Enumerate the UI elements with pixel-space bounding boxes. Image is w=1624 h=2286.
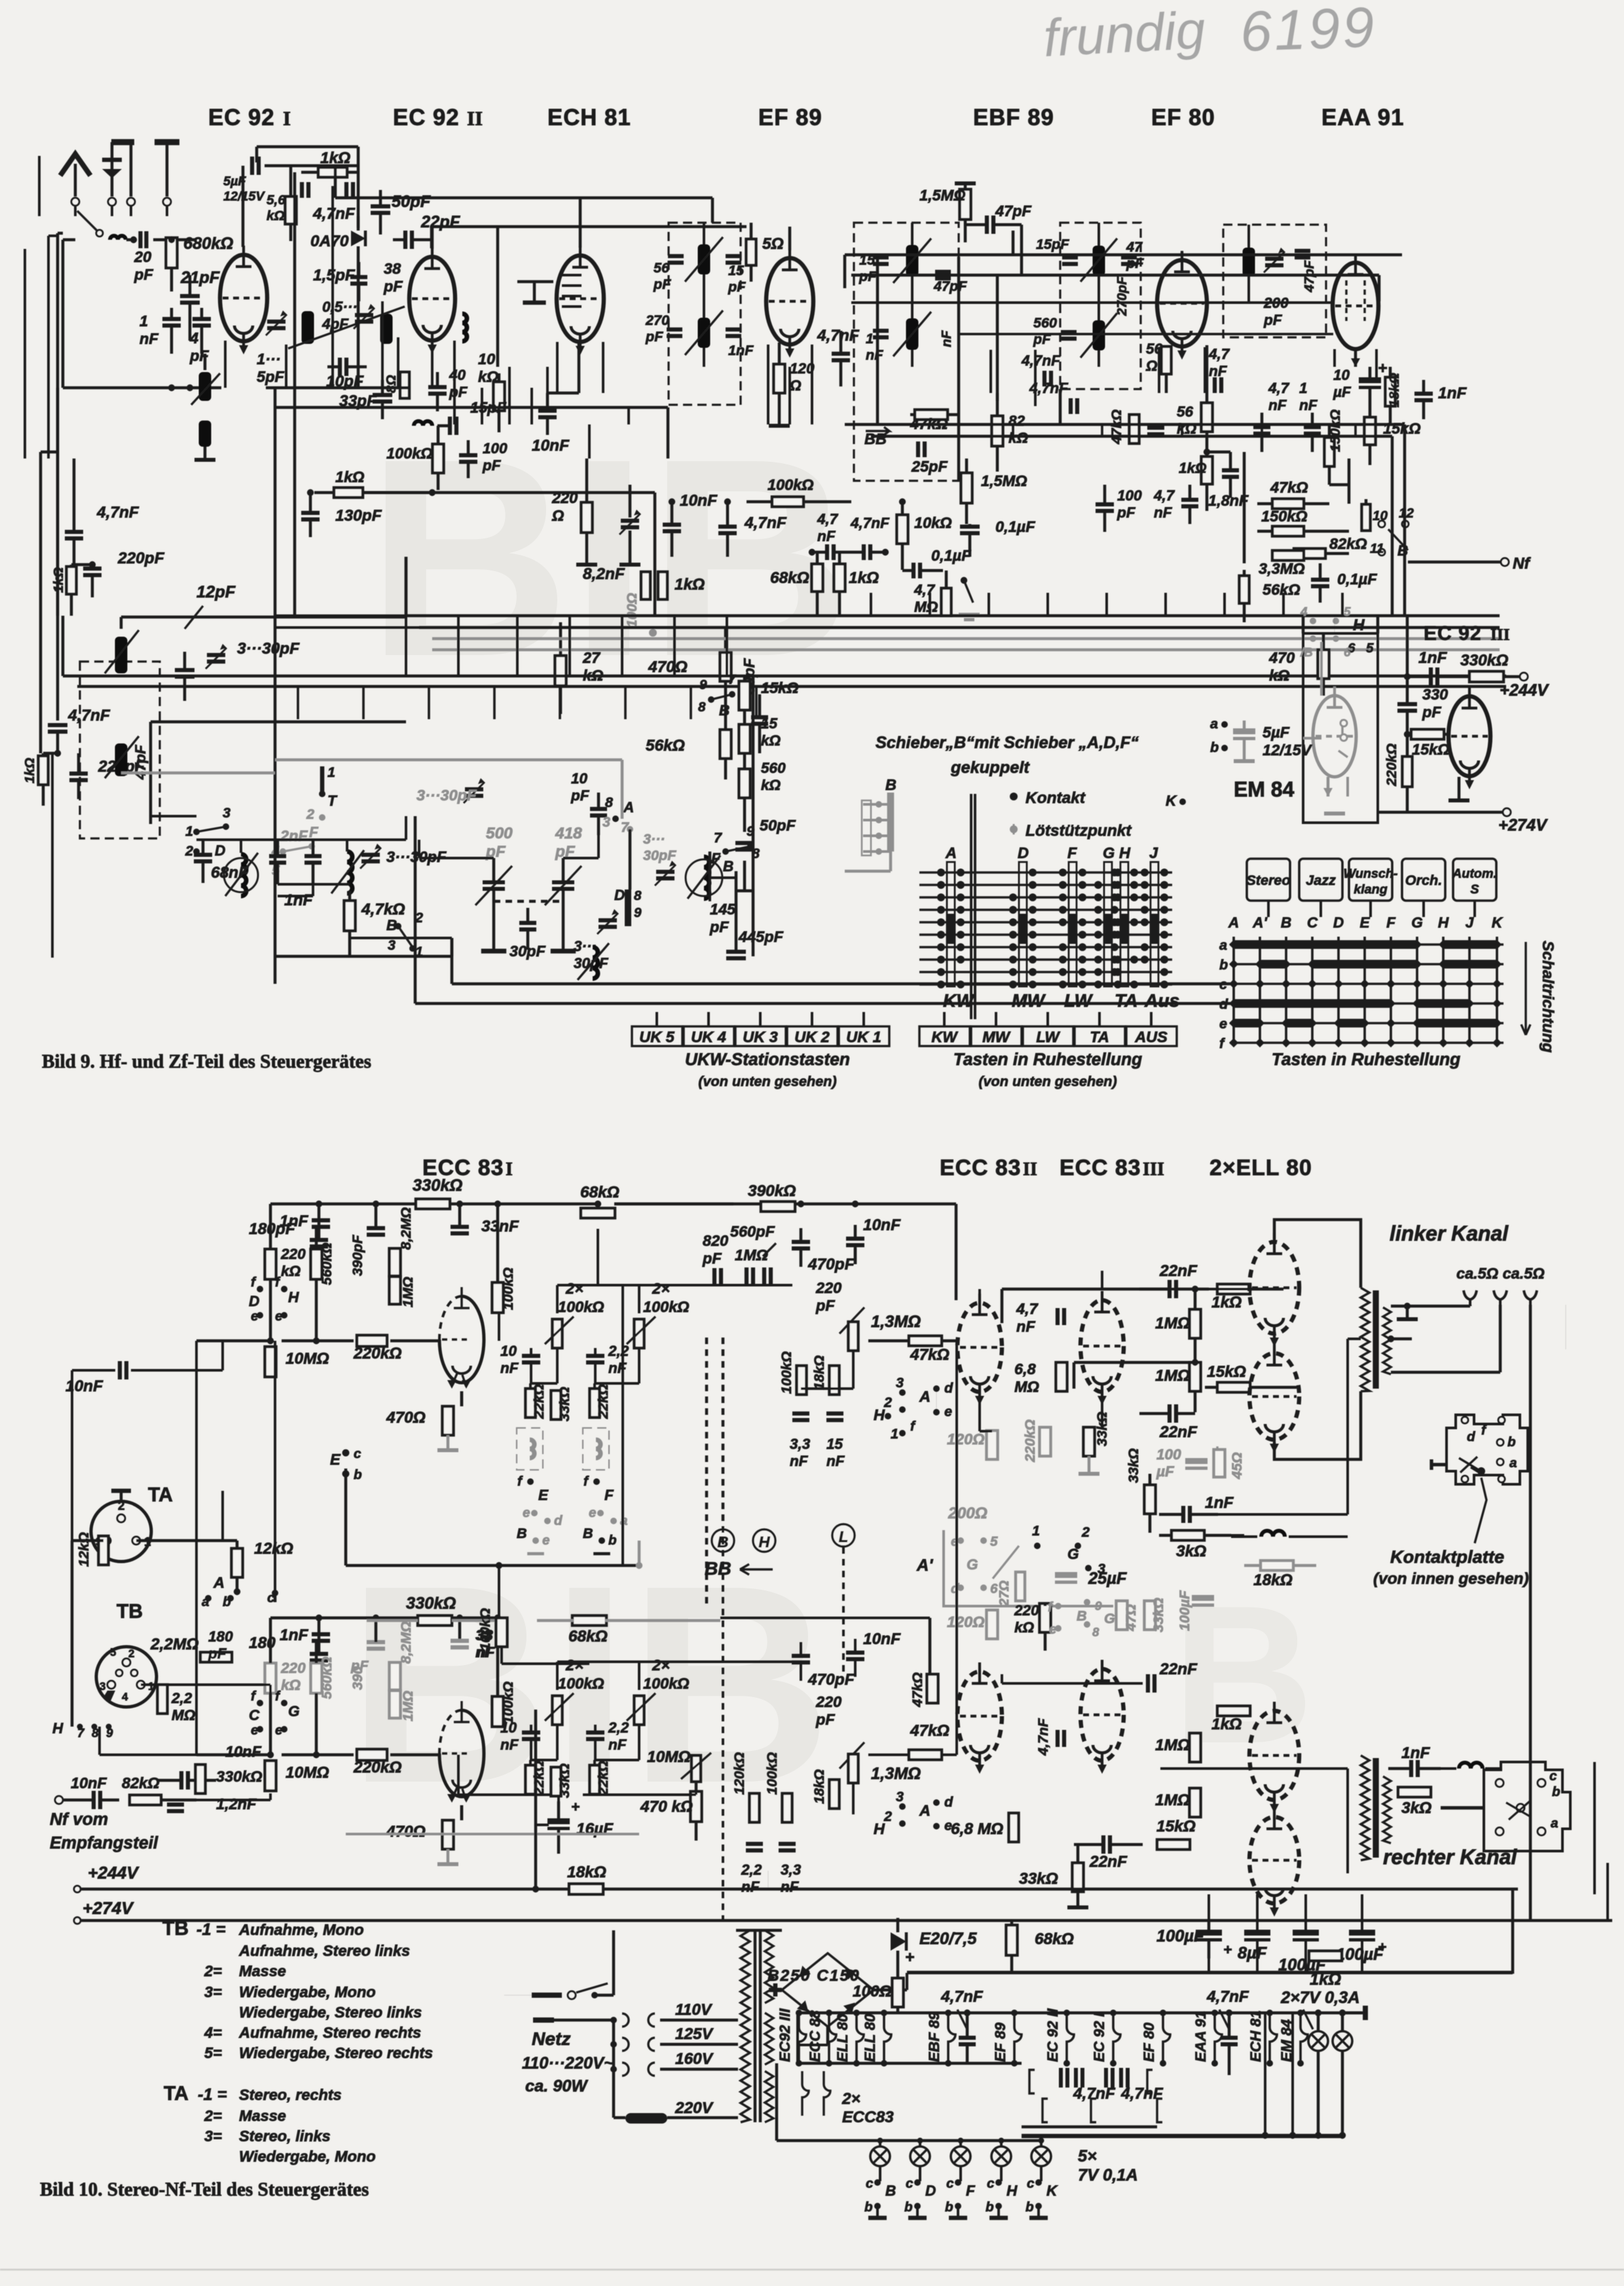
svg-text:nF: nF [939, 329, 954, 347]
switch contact [964, 580, 973, 603]
svg-text:e: e [1219, 1015, 1227, 1032]
capacitor [1170, 1404, 1176, 1423]
heater ELL 80 [884, 2013, 891, 2063]
wire [405, 616, 407, 676]
antenna plug 3 [127, 198, 135, 206]
circled L [832, 1524, 855, 1546]
svg-text:1,5MΩ: 1,5MΩ [981, 472, 1027, 489]
svg-text:3,3MΩ: 3,3MΩ [1259, 560, 1305, 577]
wire [557, 1795, 560, 1801]
svg-text:D: D [1333, 914, 1344, 931]
wire [170, 268, 173, 291]
svg-text:1,8nF: 1,8nF [1208, 492, 1249, 509]
electrolytic capacitor [547, 1818, 570, 1824]
wire [1230, 1002, 1504, 1004]
wire [1593, 1762, 1596, 1894]
wire [1022, 2134, 1344, 2137]
switch F cluster [280, 848, 286, 855]
svg-text:B250 C150: B250 C150 [767, 1967, 860, 1985]
svg-text:Kontakt: Kontakt [1025, 789, 1086, 807]
wire [91, 563, 94, 569]
wire [1499, 1305, 1502, 1372]
wire [996, 393, 999, 416]
wire [393, 238, 405, 241]
svg-text:2,2: 2,2 [608, 1343, 629, 1359]
svg-text:+274V: +274V [1498, 816, 1548, 834]
wire [868, 2216, 887, 2220]
svg-text:2: 2 [306, 806, 314, 822]
svg-text:47pF: 47pF [933, 278, 967, 294]
wire [826, 2027, 829, 2045]
wire [724, 629, 727, 652]
wire [1139, 1412, 1170, 1415]
svg-text:linker Kanal: linker Kanal [1390, 1222, 1509, 1245]
wire [907, 1889, 1513, 1972]
wire [405, 816, 407, 840]
svg-text:2×: 2× [841, 2090, 860, 2108]
wire [24, 249, 26, 459]
wire [1207, 451, 1230, 453]
svg-text:kΩ: kΩ [281, 1677, 301, 1693]
capacitor [1414, 394, 1433, 400]
svg-text:pF: pF [645, 328, 663, 345]
wire [508, 367, 511, 424]
resistor [720, 730, 731, 759]
wire [673, 616, 676, 676]
svg-text:100: 100 [483, 440, 507, 457]
svg-text:gekuppelt: gekuppelt [950, 759, 1030, 777]
capacitor [367, 1228, 385, 1235]
wire [597, 793, 600, 809]
wire [1231, 1535, 1257, 1538]
spule circle B [686, 859, 722, 896]
resistor [1130, 415, 1139, 443]
wire [74, 164, 77, 197]
svg-text:nF: nF [608, 1360, 627, 1376]
resistor [1365, 417, 1376, 445]
wire [546, 417, 549, 435]
wire [752, 675, 754, 956]
wire [1346, 1769, 1349, 1873]
svg-text:6,8: 6,8 [1014, 1360, 1037, 1377]
wire [1022, 2135, 1344, 2138]
wire [1365, 499, 1367, 536]
wire [755, 686, 758, 719]
wire [297, 686, 299, 719]
wire [1181, 424, 1183, 436]
svg-text:21pF: 21pF [180, 269, 221, 287]
wire [879, 2141, 881, 2146]
capacitor [181, 1771, 188, 1789]
wire [315, 1693, 318, 1755]
wire [1327, 777, 1329, 796]
svg-text:18kΩ: 18kΩ [1386, 373, 1402, 407]
svg-text:12pF: 12pF [196, 583, 236, 601]
svg-text:560pF: 560pF [730, 1223, 775, 1240]
wire [496, 1204, 499, 1283]
svg-text:nF: nF [817, 528, 836, 544]
wire [758, 724, 761, 753]
svg-text:2: 2 [128, 1647, 134, 1660]
wire [919, 958, 1172, 960]
wire [562, 890, 564, 917]
wire [987, 593, 990, 616]
diode E20 [891, 1932, 906, 1951]
wire [533, 2017, 554, 2023]
svg-text:8,2MΩ: 8,2MΩ [397, 1621, 414, 1664]
svg-text:390pF: 390pF [349, 1235, 365, 1276]
svg-text:10: 10 [500, 1343, 517, 1359]
wire [929, 593, 931, 616]
wire [1485, 1767, 1500, 1770]
resistor [443, 1406, 454, 1435]
wire [1341, 2052, 1344, 2135]
wire [381, 380, 384, 395]
wire [1319, 901, 1322, 917]
wire [726, 533, 729, 557]
resistor [232, 1548, 243, 1577]
wire [282, 1340, 354, 1342]
svg-text:d: d [944, 1379, 953, 1396]
wire [800, 1662, 802, 1681]
svg-text:1nF: 1nF [280, 1212, 309, 1230]
wire [536, 1824, 549, 1826]
tube [1157, 251, 1207, 360]
wire [1369, 406, 1371, 417]
capacitor [1221, 2038, 1238, 2044]
coil [380, 314, 393, 344]
svg-text:0,1µF: 0,1µF [1337, 571, 1377, 588]
svg-text:100kΩ: 100kΩ [500, 1681, 516, 1724]
capacitor [1170, 1280, 1176, 1298]
svg-text:7: 7 [728, 672, 737, 687]
svg-text:1: 1 [148, 1680, 154, 1693]
wire [707, 1012, 710, 1026]
wire [196, 1753, 270, 1756]
wire [614, 2116, 625, 2119]
wire [1204, 1534, 1244, 1537]
wire [941, 1340, 957, 1342]
wire [1443, 999, 1469, 1007]
wire [695, 1822, 697, 1841]
dashed box [854, 223, 959, 481]
ground [437, 1862, 458, 1866]
svg-text:MΩ: MΩ [1014, 1378, 1039, 1395]
resistor [641, 572, 650, 599]
svg-text:5µF: 5µF [223, 174, 246, 189]
antenna plug 2 [108, 198, 116, 206]
wire [1458, 777, 1460, 800]
wire [588, 424, 591, 459]
wire [529, 1760, 532, 1765]
ground [481, 948, 506, 953]
svg-text:EF 80: EF 80 [1141, 2022, 1157, 2062]
wire [919, 2167, 921, 2181]
resistor [1362, 504, 1371, 531]
svg-text:EC 92 I: EC 92 I [1091, 2012, 1107, 2062]
wire [131, 1369, 223, 1372]
wire [111, 206, 113, 216]
wire [437, 426, 439, 444]
wire [335, 197, 712, 199]
capacitor [193, 319, 211, 326]
label BB arrow [866, 427, 889, 435]
wire [594, 1725, 597, 1733]
wire [800, 1248, 802, 1267]
wire [811, 1012, 813, 1026]
wire [1234, 999, 1260, 1007]
wire [919, 983, 1172, 985]
resistor [166, 238, 177, 268]
svg-text:0,5···: 0,5··· [322, 299, 358, 315]
wire [695, 1782, 697, 1795]
wire [447, 1405, 449, 1408]
svg-text:AUS: AUS [1134, 1028, 1168, 1045]
resistor [158, 1685, 168, 1714]
coil [347, 852, 352, 893]
wire [200, 326, 203, 354]
svg-text:10: 10 [1373, 508, 1388, 523]
svg-text:10: 10 [1333, 367, 1350, 383]
wire [500, 1647, 503, 1664]
svg-text:(von unten gesehen): (von unten gesehen) [698, 1073, 836, 1089]
svg-text:C: C [249, 1707, 260, 1723]
ECH81 heptode grids [562, 275, 581, 307]
svg-text:330: 330 [1422, 686, 1448, 703]
wire [530, 1362, 532, 1383]
wire [516, 616, 519, 676]
svg-text:0,1µF: 0,1µF [931, 547, 971, 564]
wire [517, 280, 553, 283]
wire [183, 677, 186, 701]
svg-text:4,7kΩ: 4,7kΩ [361, 901, 405, 918]
wire [195, 1341, 198, 1755]
svg-text:100: 100 [1117, 487, 1142, 504]
svg-text:10kΩ: 10kΩ [914, 514, 952, 531]
svg-text:100kΩ: 100kΩ [500, 1267, 516, 1310]
svg-text:b: b [945, 2200, 953, 2215]
svg-text:II: II [467, 107, 483, 130]
wire [660, 2043, 738, 2046]
wire [602, 342, 604, 393]
capacitor [586, 1733, 604, 1739]
coil [1243, 248, 1255, 276]
wire [196, 1799, 270, 1801]
capacitor [312, 1220, 330, 1227]
ground [769, 424, 790, 428]
svg-text:100kΩ: 100kΩ [767, 476, 814, 493]
wire [901, 544, 904, 570]
wire [1158, 347, 1160, 393]
wire [980, 1430, 992, 1433]
svg-text:100kΩ: 100kΩ [643, 1675, 690, 1692]
wire [906, 1973, 908, 1990]
svg-text:1: 1 [866, 330, 874, 347]
svg-text:pF: pF [449, 384, 468, 400]
svg-text:220kΩ: 220kΩ [353, 1759, 401, 1776]
svg-text:E20/7,5: E20/7,5 [919, 1930, 977, 1948]
wire [48, 234, 58, 237]
wire [1044, 1603, 1046, 1606]
wire [269, 1685, 272, 1755]
wire [460, 1391, 463, 1406]
resistor [691, 1791, 702, 1822]
svg-text:47: 47 [1126, 238, 1143, 255]
svg-text:4: 4 [1300, 605, 1308, 618]
wire [955, 1204, 957, 1300]
wire [1244, 1564, 1261, 1567]
wire [798, 2062, 1022, 2065]
svg-text:-1 =: -1 = [196, 1921, 226, 1939]
wire [1234, 940, 1260, 948]
svg-text:UK 2: UK 2 [794, 1028, 830, 1045]
wire [896, 2007, 899, 2013]
wire [460, 1391, 463, 1406]
wire [554, 2019, 614, 2021]
wire [120, 617, 122, 629]
svg-text:25µF: 25µF [1088, 1569, 1128, 1588]
svg-text:c: c [866, 2176, 874, 2191]
capacitor [83, 569, 101, 575]
wire [911, 350, 913, 367]
resistor [783, 1793, 792, 1822]
wire [1098, 350, 1100, 367]
svg-text:68nF: 68nF [211, 864, 249, 882]
wire [949, 2216, 967, 2220]
coil [414, 421, 432, 426]
wire [431, 227, 434, 249]
svg-text:4,7nF: 4,7nF [940, 1988, 984, 2006]
svg-text:e: e [944, 1817, 952, 1833]
wire [1320, 642, 1323, 696]
wire [1247, 276, 1250, 301]
svg-text:9: 9 [634, 905, 642, 920]
svg-text:+: + [905, 1949, 914, 1966]
svg-text:470Ω: 470Ω [386, 1409, 426, 1427]
svg-text:8: 8 [634, 888, 642, 903]
wire [1150, 1012, 1153, 1026]
wire [1406, 787, 1409, 812]
svg-text:EF 89: EF 89 [758, 105, 822, 130]
wire [274, 1593, 276, 1602]
resistor [1073, 1863, 1084, 1892]
wire [654, 493, 656, 616]
jack pins F [593, 1478, 600, 1485]
speaker fork 3 [1524, 1290, 1537, 1305]
svg-text:D: D [614, 887, 625, 903]
capacitor [1411, 1760, 1418, 1777]
wire [970, 794, 972, 1019]
svg-text:a: a [1509, 1455, 1517, 1471]
svg-text:560: 560 [761, 760, 786, 776]
wire [978, 1395, 981, 1431]
wire [153, 238, 196, 241]
resistor [830, 1366, 840, 1395]
wire [530, 388, 533, 424]
left matrix pressed bars [948, 914, 955, 944]
wire [834, 551, 864, 553]
wire [1190, 1513, 1348, 1516]
wire [919, 2141, 921, 2146]
svg-text:3=: 3= [204, 1983, 222, 2000]
svg-text:45Ω: 45Ω [1228, 1452, 1245, 1480]
wire [357, 275, 360, 388]
wire [1230, 1022, 1504, 1024]
wire [798, 2044, 828, 2046]
capacitor [846, 1239, 864, 1245]
wire [703, 348, 705, 367]
tube [766, 249, 813, 358]
wire [1243, 452, 1246, 563]
wire [467, 462, 470, 478]
wire [838, 552, 841, 564]
svg-text:50pF: 50pF [392, 193, 432, 211]
wire [1149, 1474, 1151, 1485]
svg-text:5Ω: 5Ω [762, 235, 784, 253]
resistor [400, 372, 409, 398]
svg-text:68kΩ: 68kΩ [568, 1628, 608, 1645]
Kontaktplatte upper [1447, 1415, 1528, 1484]
capacitor [667, 329, 682, 336]
wire [842, 1547, 845, 1677]
wire [270, 1617, 498, 1619]
wire [1208, 1894, 1210, 1931]
wire [919, 884, 1172, 886]
winding [741, 1930, 750, 2122]
resistor [551, 1767, 561, 1796]
svg-text:F: F [309, 824, 319, 840]
resistor [390, 1662, 401, 1690]
svg-text:22nF: 22nF [1159, 1262, 1198, 1280]
resistor [927, 1674, 938, 1703]
svg-text:K: K [1166, 793, 1177, 809]
wire [1165, 374, 1168, 393]
svg-text:Nf vom: Nf vom [50, 1809, 108, 1829]
svg-text:1,5MΩ: 1,5MΩ [919, 187, 966, 204]
svg-text:b: b [904, 2200, 913, 2215]
svg-text:F: F [1386, 914, 1396, 931]
wire [189, 303, 191, 341]
svg-text:T: T [327, 793, 338, 809]
wire [920, 569, 943, 572]
wire [1469, 1019, 1497, 1027]
dashed box [669, 223, 741, 405]
wire [965, 223, 987, 226]
wire [750, 223, 752, 239]
svg-text:BB: BB [705, 1558, 731, 1579]
svg-text:120kΩ: 120kΩ [731, 1752, 747, 1795]
svg-text:nF: nF [1016, 1318, 1035, 1335]
resistor [1145, 1601, 1156, 1630]
svg-text:220kΩ: 220kΩ [1022, 1419, 1038, 1463]
capacitor [846, 1653, 864, 1659]
wire [993, 223, 1022, 226]
wire [70, 594, 73, 616]
svg-text:EF 89: EF 89 [992, 2022, 1008, 2062]
wire [204, 447, 206, 459]
wire [1098, 1012, 1101, 1026]
resistor [1217, 1706, 1250, 1716]
ground [1397, 1317, 1418, 1321]
svg-text:K: K [1492, 914, 1504, 931]
resistor [1040, 1603, 1051, 1632]
antenna plug 1 [71, 198, 79, 206]
svg-text:a: a [202, 1594, 210, 1609]
wire [460, 1805, 463, 1820]
wire [275, 759, 622, 761]
svg-text:pF: pF [1116, 504, 1136, 521]
contacts 1 G 2 3 [1034, 1543, 1041, 1549]
